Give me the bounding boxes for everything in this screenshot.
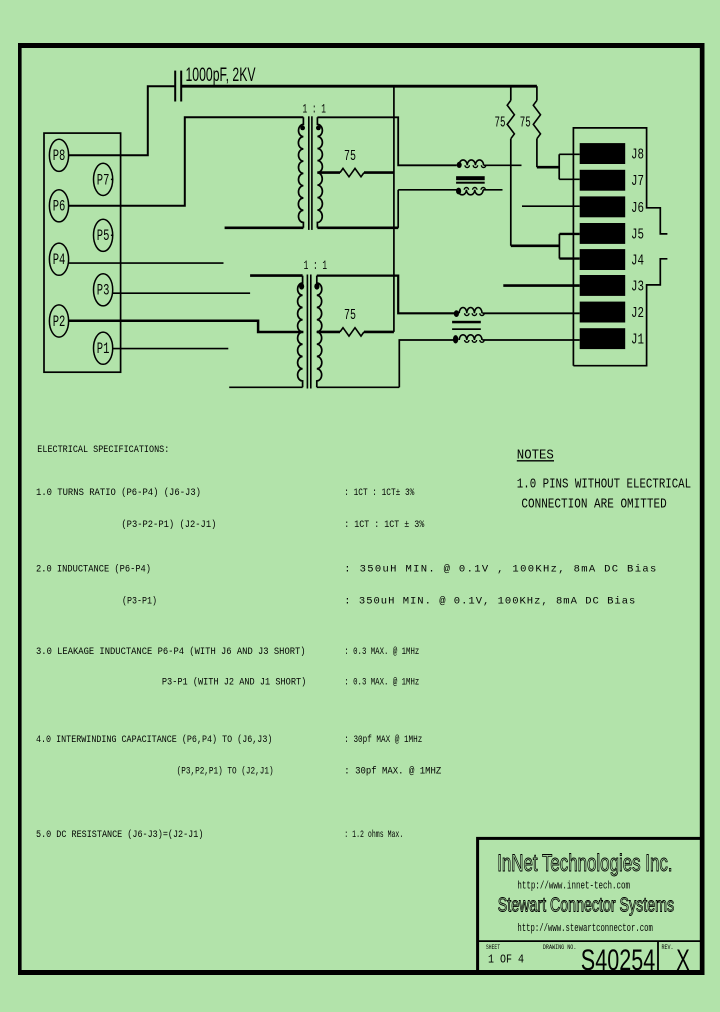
- svg-text:J1: J1: [631, 332, 644, 349]
- svg-text:REV.: REV.: [662, 944, 674, 951]
- svg-text:: 30pf MAX. @ 1MHZ: : 30pf MAX. @ 1MHZ: [344, 765, 441, 777]
- svg-text:75: 75: [520, 115, 531, 132]
- svg-text:J4: J4: [631, 252, 644, 269]
- svg-text:P5: P5: [97, 227, 110, 245]
- svg-text:: 1CT : 1CT ± 3%: : 1CT : 1CT ± 3%: [344, 519, 425, 531]
- svg-text:75: 75: [495, 115, 506, 132]
- svg-text:J8: J8: [631, 146, 644, 163]
- svg-text:P8: P8: [53, 147, 66, 165]
- svg-text:(P3,P2,P1) TO (J2,J1): (P3,P2,P1) TO (J2,J1): [177, 765, 274, 777]
- svg-text:Stewart Connector Systems: Stewart Connector Systems: [498, 895, 674, 917]
- svg-text:: 350uH MIN. @ 0.1V , 100KHz,: : 350uH MIN. @ 0.1V , 100KHz, 8mA DC Bia…: [344, 563, 656, 575]
- svg-text:1000pF, 2KV: 1000pF, 2KV: [186, 65, 256, 86]
- svg-text:P1: P1: [97, 340, 110, 358]
- svg-text:ELECTRICAL SPECIFICATIONS:: ELECTRICAL SPECIFICATIONS:: [37, 444, 169, 456]
- svg-text:InNet Technologies Inc.: InNet Technologies Inc.: [497, 850, 672, 877]
- svg-text:: 0.3 MAX. @ 1MHz: : 0.3 MAX. @ 1MHz: [344, 646, 419, 658]
- svg-text:J2: J2: [631, 305, 644, 322]
- svg-text:: 1.2 ohms Max.: : 1.2 ohms Max.: [344, 829, 403, 841]
- svg-text:DRAWING NO.: DRAWING NO.: [543, 944, 577, 951]
- svg-text:J7: J7: [631, 173, 644, 190]
- svg-text:75: 75: [344, 148, 356, 165]
- svg-text:P3-P1 (WITH J2 AND J1 SHORT): P3-P1 (WITH J2 AND J1 SHORT): [162, 677, 306, 689]
- svg-text:P2: P2: [53, 313, 66, 331]
- svg-text:X: X: [676, 944, 690, 977]
- svg-text:(P3-P1): (P3-P1): [122, 595, 157, 607]
- svg-text:P6: P6: [53, 198, 66, 216]
- svg-text:J3: J3: [631, 278, 644, 295]
- svg-text:http://www.innet-tech.com: http://www.innet-tech.com: [517, 881, 630, 893]
- svg-text:(P3-P2-P1) (J2-J1): (P3-P2-P1) (J2-J1): [121, 519, 216, 531]
- svg-text:1 OF 4: 1 OF 4: [488, 954, 524, 967]
- svg-text:1 : 1: 1 : 1: [303, 102, 327, 117]
- svg-text:: 1CT : 1CT± 3%: : 1CT : 1CT± 3%: [344, 487, 415, 499]
- svg-text:S40254: S40254: [581, 944, 655, 977]
- svg-text:1.0 PINS WITHOUT ELECTRICAL: 1.0 PINS WITHOUT ELECTRICAL: [517, 477, 691, 493]
- svg-text:2.0 INDUCTANCE (P6-P4): 2.0 INDUCTANCE (P6-P4): [36, 563, 151, 575]
- svg-text:P7: P7: [97, 171, 110, 189]
- svg-text:: 30pf MAX @ 1MHz: : 30pf MAX @ 1MHz: [344, 734, 422, 746]
- svg-text:SHEET: SHEET: [486, 944, 500, 951]
- svg-text:3.0 LEAKAGE INDUCTANCE P6-P4 (: 3.0 LEAKAGE INDUCTANCE P6-P4 (WITH J6 AN…: [36, 646, 306, 658]
- svg-text:J5: J5: [631, 226, 644, 243]
- svg-text:J6: J6: [631, 200, 644, 217]
- svg-text:: 350uH MIN. @ 0.1V, 100KHz, 8: : 350uH MIN. @ 0.1V, 100KHz, 8mA DC Bias: [344, 595, 635, 607]
- svg-text:http://www.stewartconnector.co: http://www.stewartconnector.com: [517, 923, 653, 935]
- svg-text:: 0.3 MAX. @ 1MHz: : 0.3 MAX. @ 1MHz: [344, 677, 419, 689]
- svg-text:1.0 TURNS RATIO (P6-P4) (J6-J: 1.0 TURNS RATIO (P6-P4) (J6-J3): [36, 487, 201, 499]
- svg-text:CONNECTION ARE OMITTED: CONNECTION ARE OMITTED: [521, 497, 666, 513]
- svg-text:4.0 INTERWINDING CAPACITANCE (: 4.0 INTERWINDING CAPACITANCE (P6,P4) TO …: [36, 734, 272, 746]
- svg-text:P4: P4: [53, 251, 66, 269]
- svg-text:75: 75: [344, 307, 356, 324]
- svg-text:5.0 DC RESISTANCE (J6-J3)=(J2-: 5.0 DC RESISTANCE (J6-J3)=(J2-J1): [36, 829, 203, 841]
- svg-text:P3: P3: [97, 282, 110, 300]
- svg-text:1 : 1: 1 : 1: [304, 258, 328, 273]
